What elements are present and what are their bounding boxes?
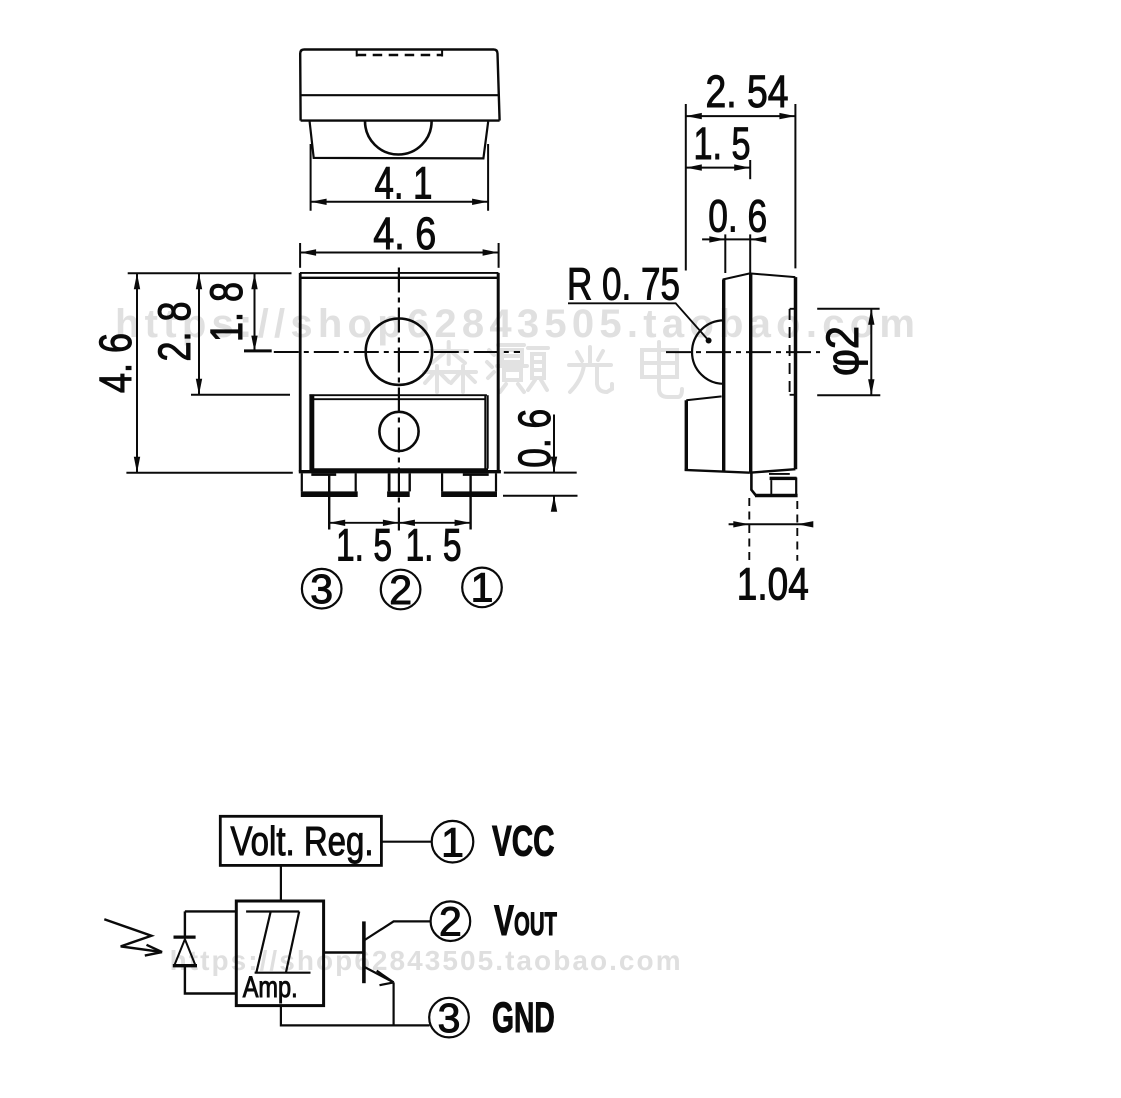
pin 1 centerline extension <box>469 474 471 530</box>
pin terminal 3 circled <box>429 998 469 1038</box>
dim 1.8 end tick <box>244 349 272 352</box>
top view lower block <box>310 122 489 159</box>
photodiode bottom wire <box>185 966 236 994</box>
top view parting line <box>300 94 499 96</box>
front horizontal centerline <box>274 351 520 353</box>
side body right edge <box>794 277 798 469</box>
front vertical centerline <box>398 268 400 531</box>
photodiode triangle <box>175 939 196 965</box>
svg-text:Volt. Reg.: Volt. Reg. <box>231 818 374 864</box>
cjk char guang <box>569 347 612 392</box>
svg-text:GND: GND <box>492 994 555 1042</box>
top view body upper block <box>300 50 499 121</box>
svg-text:1.04: 1.04 <box>737 559 809 610</box>
dim 1.8 line <box>254 273 256 351</box>
transistor base wire <box>324 951 364 953</box>
svg-text:1. 5: 1. 5 <box>336 520 392 571</box>
dim 2.8 line <box>198 273 200 395</box>
dim 4.1 extension lines <box>310 144 312 211</box>
watermark url bottom <box>170 945 681 976</box>
dim 4.6 top extension ticks <box>299 243 301 268</box>
front body bottom edge <box>299 470 501 473</box>
dim 4.6 left top extension <box>128 272 292 274</box>
front body top thin line <box>300 272 498 274</box>
svg-text:3: 3 <box>438 995 461 1041</box>
wire vreg to pin1 <box>381 841 431 843</box>
pin 3 centerline extension <box>328 474 330 530</box>
top view hidden slot dashed line <box>356 51 358 57</box>
IR arrow <box>104 919 162 952</box>
svg-text:R 0. 75: R 0. 75 <box>567 259 680 310</box>
dim 2.54 line <box>686 115 796 117</box>
top view body lower edge line <box>301 119 500 121</box>
R0.75 leader line <box>568 303 709 340</box>
svg-text:4. 6: 4. 6 <box>373 208 436 259</box>
top view <box>300 50 500 268</box>
svg-text:2. 8: 2. 8 <box>149 302 200 362</box>
block diagram <box>104 816 557 1042</box>
dim 1.04 extension dashed lines <box>748 498 750 560</box>
dim 1.5 1.5 line <box>329 522 470 524</box>
cjk char dian <box>642 342 682 397</box>
pin 2 front tab <box>388 473 391 491</box>
side pin lead <box>751 473 756 496</box>
pin number 1 circled <box>462 568 502 608</box>
pin terminal 1 circled <box>432 821 474 863</box>
svg-text:1. 5: 1. 5 <box>694 118 751 169</box>
dim 0.6 side extension lines <box>724 234 726 273</box>
transistor base bar <box>362 921 366 983</box>
front window left thick edge <box>309 394 314 470</box>
front lens circle <box>366 319 432 385</box>
side lens column left edge <box>722 280 725 471</box>
svg-text:2: 2 <box>389 567 412 613</box>
front window right edges <box>484 395 486 468</box>
svg-text:1. 8: 1. 8 <box>201 282 252 342</box>
front view <box>90 268 578 613</box>
svg-text:4. 6: 4. 6 <box>90 333 141 393</box>
svg-text:2. 54: 2. 54 <box>706 66 789 117</box>
side lens dome arc R0.75 <box>692 320 724 383</box>
svg-text:VCC: VCC <box>492 818 555 866</box>
front window bottom edge <box>311 468 488 470</box>
transistor collector <box>365 921 432 940</box>
dim 2.54 extension lines <box>685 104 687 271</box>
dim 4.6 left bottom extension <box>126 472 292 474</box>
front window inner top line <box>312 398 485 400</box>
dim 4.6 left vertical line <box>136 273 138 473</box>
watermark chinese <box>424 342 682 397</box>
dim phi2 line <box>870 309 872 396</box>
svg-text:4. 1: 4. 1 <box>375 158 433 209</box>
side body top edges <box>723 273 796 279</box>
svg-text:φ2: φ2 <box>817 326 868 376</box>
dim 4.1 line <box>311 201 489 203</box>
svg-text:0. 6: 0. 6 <box>509 409 560 468</box>
dim 0.6 right extension lines <box>504 472 577 474</box>
pin number 2 circled <box>381 570 421 610</box>
svg-text:1: 1 <box>471 565 494 611</box>
front sensor circle <box>379 412 418 451</box>
dim 4.6 top line <box>300 252 499 254</box>
cjk char sen <box>424 342 476 392</box>
front body outline <box>299 273 302 472</box>
emitter wire down <box>393 982 395 1025</box>
amplifier box <box>236 901 323 1006</box>
dim 1.5 side right extension <box>749 160 751 179</box>
side body middle edge <box>749 273 752 472</box>
dim 0.6 right line and arrows <box>553 415 555 473</box>
gnd wire <box>281 1006 430 1026</box>
watermark url top <box>115 302 915 346</box>
dim 1.04 line and arrows <box>729 523 809 525</box>
side hidden lens aperture dashed <box>789 309 791 395</box>
transistor emitter with arrow <box>365 967 394 982</box>
dim 1.5 side line <box>686 167 750 169</box>
pin number 3 circled <box>302 569 342 609</box>
svg-text:0. 6: 0. 6 <box>708 191 767 242</box>
top view lens dome arc <box>365 121 432 154</box>
pin 3 front tab <box>301 473 303 491</box>
dim 2.8 bottom extension <box>191 394 290 396</box>
pin 1 front tab <box>441 473 443 491</box>
side lower window protrusion <box>686 396 721 400</box>
svg-text:3: 3 <box>310 566 333 612</box>
side horizontal centerline <box>666 351 820 353</box>
side view <box>567 66 880 610</box>
side body bottom edge <box>750 469 796 473</box>
photodiode top wire <box>185 911 236 937</box>
photodiode cathode bar <box>174 935 196 938</box>
svg-text:2: 2 <box>439 899 462 945</box>
wire vreg to amp <box>280 865 282 901</box>
front window outer top line <box>309 394 487 396</box>
cjk char hao <box>487 345 548 392</box>
voltage regulator box <box>220 816 381 865</box>
dim 0.6 side line and arrows <box>702 238 765 240</box>
svg-text:Amp.: Amp. <box>243 971 298 1004</box>
dim phi2 extension lines <box>817 308 879 310</box>
svg-text:1: 1 <box>441 820 464 866</box>
amp hysteresis symbol <box>246 910 299 912</box>
svg-text:1. 5: 1. 5 <box>406 520 462 571</box>
pin terminal 2 circled <box>431 901 471 941</box>
